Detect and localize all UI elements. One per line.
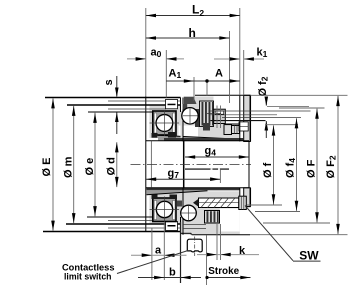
armature plate bottom lines [87,216,166,218]
dim d [116,142,118,187]
part top edge [195,94,250,96]
thread band [185,168,229,170]
right ext lines [250,94,347,96]
lower nut pack [205,211,220,224]
svg-text:Ø f: Ø f [262,162,274,178]
thread runout tick [219,170,221,183]
corner step wedge [184,97,197,104]
ext line k1 right [243,50,245,95]
SW leader [245,206,293,261]
pack lower clamp [203,123,210,131]
ext line A ref [206,81,208,95]
plate end cap top [180,98,182,113]
svg-text:Ø F2: Ø F2 [325,155,338,178]
sensor rod [199,198,239,208]
dim F2 [337,96,339,234]
upper small ball bracket [183,104,188,109]
svg-text:limit switch: limit switch [64,272,112,282]
right faces [239,95,241,141]
lower bearing foot [152,195,158,200]
part bottom edge [147,231,181,233]
dim g4 [185,156,249,158]
dim m [73,106,75,224]
svg-text:Ø f4: Ø f4 [284,158,297,178]
lower bearing block [153,198,176,222]
stud step faces [216,106,218,129]
upper bearing foot [152,133,158,138]
svg-text:Ø F: Ø F [305,159,317,178]
upper sloped web wedge [158,135,230,141]
svg-text:a: a [155,245,162,257]
dim A1 A [166,80,240,82]
svg-text:Ø e: Ø e [84,158,96,176]
svg-text:s: s [103,79,115,85]
stud end through flange [239,122,248,131]
dim F [316,109,318,223]
bore top edge [146,140,249,142]
ext line h right [229,31,231,103]
dim E [52,98,54,231]
right flange plate upper [244,95,251,141]
dim f4 [296,118,298,211]
svg-text:h: h [189,26,196,40]
dim h [146,37,230,39]
upper ball [156,115,173,132]
ext line L2 left [145,8,147,97]
upper bearing seals [154,113,156,133]
dim b [138,277,201,279]
svg-text:g4: g4 [205,145,217,158]
counterbore faces [150,141,152,188]
washer lines [183,224,206,226]
bottom ext lines [151,228,153,280]
housing step edge top [225,123,240,125]
svg-text:A1: A1 [169,68,182,81]
armature disc face line [145,97,147,233]
dim k [197,254,259,256]
right flange plate lower [244,188,251,207]
upper disc pack [200,101,214,127]
stud pocket white [214,96,240,124]
lower small ball [181,205,197,221]
gap bridge bottom (air gap white) [180,217,183,232]
stud lines [267,105,309,107]
bore right face [248,142,250,188]
coil housing front face [182,98,184,142]
lower ball [156,201,172,217]
stud centerline [207,113,222,115]
part body [43,95,311,256]
svg-text:k: k [239,245,246,257]
svg-text:g7: g7 [168,168,180,181]
svg-text:Ø E: Ø E [41,158,53,177]
svg-text:a0: a0 [151,47,162,60]
gap bridge top [181,111,184,138]
rivet box top [166,100,178,109]
svg-text:Ø f2: Ø f2 [257,76,270,96]
svg-text:Stroke: Stroke [208,265,239,277]
rivet box bottom [166,222,178,231]
lower bearing foot right [170,195,178,200]
sensor hex SW [239,196,247,209]
lower small ball bracket [177,201,182,207]
armature plate top lines [45,97,181,99]
main centerline [131,164,252,166]
dark band above bore [164,138,244,141]
ext line L2 right [239,8,241,95]
coil housing upper body [150,105,181,138]
white slot under ball2 [179,126,199,137]
dim a [131,254,187,256]
lower white pocket [220,209,240,232]
dim g7 [146,178,220,180]
svg-text:SW: SW [299,249,319,263]
lower bearing seals [154,201,156,220]
bore shoulder face [183,141,185,188]
coil housing lower body [150,191,181,224]
dim f [273,125,275,204]
svg-text:Ø m: Ø m [63,156,75,178]
ext line A1 [193,77,195,101]
svg-text:k1: k1 [257,47,268,60]
contactless leader [117,251,188,274]
ext line a0 right [165,50,167,98]
bore bottom edge [146,187,249,189]
dim a0 [127,58,146,60]
svg-text:A: A [215,68,223,80]
upper nut [214,109,226,123]
dim k1 [214,58,240,60]
dim L2 [146,15,240,17]
lower band below bore [147,188,240,191]
upper bearing foot right [168,132,176,138]
svg-text:b: b [169,267,176,279]
lower sloped web wedge [147,190,208,195]
upper bearing block [153,111,176,135]
sensor screw top [224,125,232,135]
upper small ball [195,109,200,127]
jaw piece [187,239,202,252]
svg-text:Ø d: Ø d [106,157,118,175]
dim e [94,113,96,217]
plate end cap bottom [180,217,182,232]
